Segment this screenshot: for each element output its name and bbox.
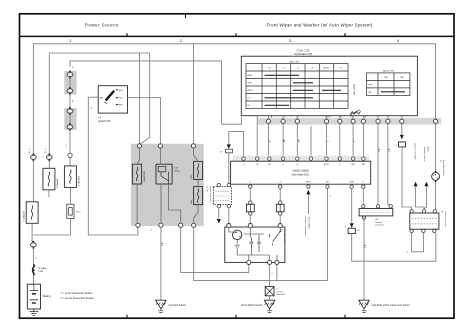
contact bars <box>265 74 300 76</box>
MPX arrow <box>306 190 310 195</box>
relay block pins top <box>137 144 141 148</box>
wire p2 relay <box>160 148 180 224</box>
svg-text:Junction Connector: Junction Connector <box>209 186 212 202</box>
svg-text:Junction Connector: Junction Connector <box>444 211 447 227</box>
wires cleaner to connector <box>416 186 427 209</box>
J21 boxlet <box>399 142 406 147</box>
WS boxlet <box>226 149 233 153</box>
battery <box>27 284 40 309</box>
fusible link 100A ALT box <box>26 202 38 224</box>
wire to FL MAIN <box>32 248 34 265</box>
svg-text:Relay: Relay <box>426 147 428 152</box>
motor circle <box>233 230 242 239</box>
wire J20 to ground G3 <box>363 216 365 300</box>
svg-text:AUTO: AUTO <box>324 67 330 70</box>
svg-text:F 8: F 8 <box>280 229 282 232</box>
wire ECU E to J20 <box>362 188 364 204</box>
wire washer pin to J20 <box>388 123 391 204</box>
header ticks on divider <box>126 33 128 36</box>
svg-text:IG1: IG1 <box>119 98 122 100</box>
connector open circle col3 <box>68 153 72 157</box>
svg-text:W: W <box>220 151 222 153</box>
svg-text:Power Source: Power Source <box>85 23 119 28</box>
svg-text:ACC: ACC <box>119 89 124 92</box>
left jog chain to ECU pin1 <box>229 132 244 157</box>
fuse col3 b <box>67 87 73 95</box>
wire motor to J7 ground <box>269 265 271 287</box>
wire col3 <box>69 94 71 109</box>
J9 J10 junction connector dashed box <box>213 187 231 205</box>
wire AM1 to left <box>88 97 138 235</box>
auto wiper ECU box <box>231 161 371 184</box>
svg-text:4: 4 <box>396 145 397 147</box>
svg-text:Cleaner Control ECU: Cleaner Control ECU <box>413 143 416 161</box>
arrow into WS box <box>227 144 231 149</box>
svg-text:10A: 10A <box>190 200 193 204</box>
svg-text:Battery: Battery <box>43 294 52 298</box>
fuse B right col <box>194 187 203 205</box>
svg-text:Front Wiper and Washer (w/ Aut: Front Wiper and Washer (w/ Auto Wiper Sy… <box>267 23 373 28</box>
washer motor <box>432 172 440 180</box>
gray shade fuse col3 upper <box>64 71 76 95</box>
svg-text:MIST: MIST <box>248 75 254 77</box>
washer switch table <box>367 73 410 96</box>
gray shade fuse col3 lower <box>64 108 76 130</box>
wire washer WF chain <box>401 123 403 133</box>
header section tick <box>185 14 187 18</box>
svg-text:Washer SW: Washer SW <box>383 70 394 73</box>
svg-text:BR: BR <box>298 139 300 142</box>
wire block pin3 loop <box>181 227 249 272</box>
ECU top pins <box>242 157 245 160</box>
ign contacts <box>116 89 117 90</box>
connector bottom pins <box>410 229 413 232</box>
wire ECU +1 chain <box>249 188 251 201</box>
ground front right fender <box>264 300 274 312</box>
svg-text:OFF: OFF <box>248 83 253 85</box>
svg-text:J 7: J 7 <box>276 289 279 291</box>
DCC box <box>67 204 74 218</box>
key glyph <box>105 90 115 101</box>
svg-text:AM1: AM1 <box>100 97 104 100</box>
relay block pins bottom <box>136 223 140 227</box>
bottom frame ticks <box>126 315 128 318</box>
ignition switch I4 <box>98 86 127 113</box>
svg-text:ON: ON <box>368 92 372 94</box>
gray shade comb switch pin row <box>258 118 441 125</box>
svg-text:PWR: PWR <box>350 182 355 184</box>
svg-text:+1: +1 <box>242 164 244 166</box>
svg-text:+2: +2 <box>282 164 284 166</box>
svg-text:20A WIPER: 20A WIPER <box>143 171 146 182</box>
J22 box <box>348 228 355 233</box>
wire J9 left pin down arrow <box>218 208 220 219</box>
connector 2D col1 <box>31 241 37 249</box>
svg-text:Connector: Connector <box>375 224 384 227</box>
svg-text:4: 4 <box>345 226 346 228</box>
J20 junction connector box <box>359 209 393 216</box>
wire bus B <box>49 53 149 155</box>
svg-text:AUTO: AUTO <box>324 163 330 166</box>
wire motor T <box>276 264 278 280</box>
motor top pins <box>227 224 231 228</box>
svg-text:A26(A), A26(B): A26(A), A26(B) <box>292 170 308 173</box>
fuse col3 c <box>67 107 73 115</box>
svg-text:Wiper SW: Wiper SW <box>289 61 298 64</box>
wire J7 to ground <box>269 296 271 300</box>
wire washer WV to J20 <box>377 123 379 204</box>
wiper switch table <box>246 64 348 109</box>
wire col3 join <box>69 77 71 88</box>
wire col3 low <box>69 158 71 166</box>
svg-text:VR1: VR1 <box>351 164 355 166</box>
svg-text:OFF: OFF <box>368 85 373 87</box>
capacitor symbols <box>250 238 262 249</box>
battery ground <box>29 309 38 315</box>
combination switch box <box>241 56 417 115</box>
svg-text:Left Kick Panel: Left Kick Panel <box>168 303 186 307</box>
svg-text:Front Washer Motor: Front Washer Motor <box>442 160 445 176</box>
fuse WIPER in block <box>133 164 142 184</box>
svg-text:F 7: F 7 <box>439 160 441 163</box>
cleaner arrows up <box>414 182 418 187</box>
ground left kick panel <box>156 300 166 312</box>
svg-text:VR2: VR2 <box>362 164 366 166</box>
svg-text:FL MAIN: FL MAIN <box>38 267 47 270</box>
svg-text:J22: J22 <box>357 230 360 232</box>
wires fuses right col <box>194 148 199 224</box>
fusible link AM1 box <box>64 166 76 188</box>
J20 top pins <box>362 205 365 208</box>
J20 bottom pin <box>362 216 365 219</box>
fuse col3 a <box>67 70 73 78</box>
comb switch pins <box>266 119 270 123</box>
J9 pins <box>217 183 220 186</box>
svg-text:Headlight Cleaner: Headlight Cleaner <box>423 147 426 162</box>
front wiper motor box <box>225 227 285 262</box>
wire p1 to fuse <box>137 148 139 224</box>
svg-text:Combination SW: Combination SW <box>294 53 313 56</box>
wire big U loop <box>352 233 436 262</box>
wire comb pin short to ECU 257 <box>256 116 258 157</box>
relay IG2 <box>156 164 172 184</box>
wire col3 low2 <box>69 187 71 204</box>
svg-text:System (MPX): System (MPX) <box>308 217 311 229</box>
svg-text:Front Wiper Motor: Front Wiper Motor <box>283 229 286 244</box>
wire col1 mid <box>32 160 34 202</box>
svg-text:LO: LO <box>248 98 251 100</box>
motor internals <box>229 228 277 261</box>
multi connector box <box>410 213 439 229</box>
J7 junction connector box <box>265 287 274 296</box>
connector top pins <box>410 210 413 213</box>
svg-text:* 1 : w/ Air Suspension System: * 1 : w/ Air Suspension System <box>60 292 93 295</box>
wire ECU PWR to J22 <box>351 188 353 222</box>
wire bus C <box>70 61 241 124</box>
ground left side instrument panel <box>359 300 369 312</box>
svg-text:Multiplex Communication: Multiplex Communication <box>304 217 307 237</box>
wire bus A drop to relay block pin 3 <box>193 44 195 144</box>
svg-text:Left Side of the Instrument Pa: Left Side of the Instrument Panel <box>372 303 410 307</box>
gray strip ECU pin row <box>233 156 369 162</box>
svg-text:DCC: DCC <box>76 212 81 214</box>
wires comb pins to ECU pins <box>268 123 363 156</box>
wire to battery <box>32 275 34 284</box>
svg-text:+2: +2 <box>279 182 281 184</box>
fuse 2B col2 <box>46 153 52 161</box>
fusible link FL MAIN zigzag <box>33 265 35 276</box>
svg-text:Front Right Fender: Front Right Fender <box>241 303 263 307</box>
svg-text:Junction: Junction <box>276 290 283 293</box>
svg-text:* 2 : w/o Air Suspension Syste: * 2 : w/o Air Suspension System <box>60 297 94 300</box>
washer motor feed wire <box>435 123 437 209</box>
wire block pin2 to ground G1 <box>160 227 162 300</box>
wire col2 stub <box>48 190 50 197</box>
svg-text:+1: +1 <box>249 182 251 184</box>
wire col1 lower <box>31 223 33 242</box>
svg-text:J9, J10: J9, J10 <box>206 186 208 192</box>
svg-text:Connector: Connector <box>276 293 285 296</box>
wire WS box down to J9 <box>228 153 230 184</box>
svg-text:1.25B AM1: 1.25B AM1 <box>77 175 80 186</box>
comb box pin stubs <box>268 116 401 120</box>
wire J9 right pin to motor <box>228 208 230 224</box>
fuse col3 d <box>67 123 73 131</box>
svg-text:AUTO: AUTO <box>248 89 254 92</box>
wire block pin4 loop <box>194 189 328 281</box>
svg-text:Junction: Junction <box>375 221 382 224</box>
svg-text:(Wiper SW): (Wiper SW) <box>353 84 356 95</box>
svg-text:Auto Wiper ECU: Auto Wiper ECU <box>292 173 310 176</box>
svg-text:0.5W AM2: 0.5W AM2 <box>56 178 59 188</box>
fusible link AM2 box <box>43 168 55 190</box>
svg-text:MPX1: MPX1 <box>306 182 311 184</box>
gray shade relay block <box>131 144 204 226</box>
wire col3 join2 <box>69 114 71 153</box>
small U jumper <box>412 233 424 252</box>
wire col3 to col1 <box>33 219 70 236</box>
header divider line <box>20 35 455 37</box>
wire ECU +2 chain <box>279 188 281 201</box>
svg-text:J20: J20 <box>375 219 378 221</box>
svg-text:*1 100A ALT: *1 100A ALT <box>23 210 26 222</box>
wire J21 down to connector <box>402 147 412 210</box>
motor bottom pins <box>247 260 251 264</box>
svg-text:EF1: EF1 <box>119 105 122 107</box>
wire IG1 to relay block pin2 <box>128 98 161 144</box>
svg-text:2.0W: 2.0W <box>38 271 43 273</box>
wire col2 <box>48 160 50 168</box>
svg-text:15A: 15A <box>190 175 193 179</box>
ECU bottom pins <box>249 185 252 188</box>
svg-text:Ignition SW: Ignition SW <box>98 120 111 123</box>
wire bus A top <box>33 44 435 155</box>
fuse 2I col1 <box>31 153 37 161</box>
switch arm <box>270 228 281 246</box>
VR squiggle <box>350 111 361 115</box>
fuse A right col <box>194 161 203 179</box>
